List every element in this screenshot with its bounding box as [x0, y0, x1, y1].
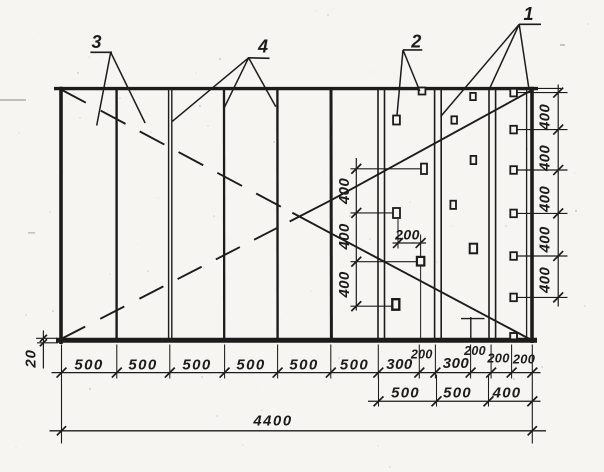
svg-text:400: 400 — [336, 223, 353, 250]
svg-text:1: 1 — [523, 4, 533, 24]
svg-text:4: 4 — [257, 37, 268, 57]
svg-text:400: 400 — [336, 178, 353, 205]
svg-text:400: 400 — [537, 226, 554, 253]
svg-text:400: 400 — [537, 104, 554, 131]
svg-text:500: 500 — [74, 356, 103, 373]
svg-text:500: 500 — [391, 385, 420, 402]
svg-text:4400: 4400 — [252, 414, 292, 430]
svg-text:400: 400 — [492, 385, 522, 402]
svg-text:500: 500 — [340, 356, 369, 373]
svg-text:20: 20 — [23, 349, 40, 368]
svg-text:500: 500 — [128, 356, 157, 373]
svg-text:400: 400 — [537, 267, 554, 294]
svg-text:200: 200 — [512, 352, 535, 367]
svg-text:500: 500 — [289, 356, 318, 373]
svg-text:200: 200 — [463, 344, 486, 358]
svg-text:3: 3 — [91, 32, 101, 52]
svg-text:2: 2 — [410, 32, 421, 52]
svg-text:500: 500 — [443, 385, 472, 402]
svg-text:400: 400 — [336, 271, 353, 298]
svg-text:500: 500 — [182, 356, 211, 373]
svg-text:400: 400 — [537, 186, 554, 213]
svg-text:200: 200 — [486, 351, 509, 366]
svg-text:200: 200 — [410, 348, 433, 362]
svg-text:300: 300 — [386, 356, 413, 373]
svg-text:400: 400 — [537, 145, 554, 172]
svg-text:500: 500 — [236, 356, 265, 373]
